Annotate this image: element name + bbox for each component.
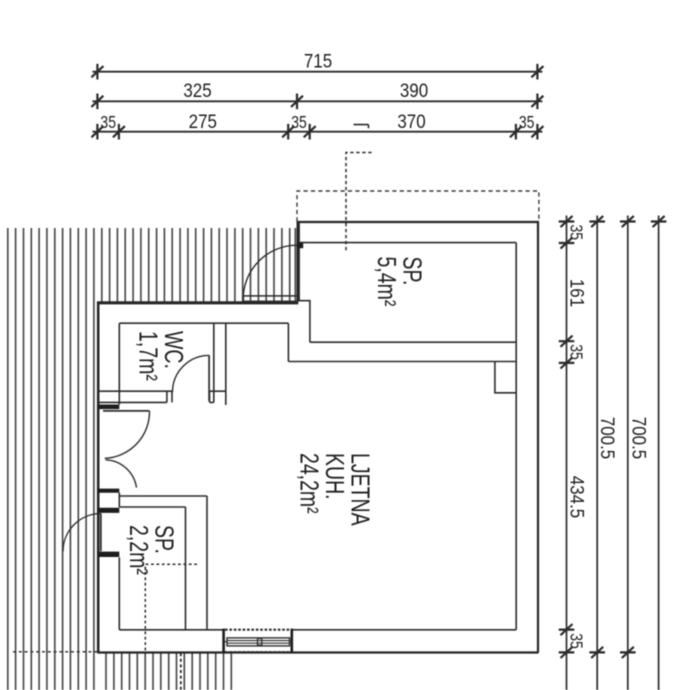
svg-text:1,7m²: 1,7m² [134, 331, 163, 381]
svg-text:700.5: 700.5 [628, 417, 650, 459]
svg-text:35: 35 [566, 225, 585, 241]
svg-text:390: 390 [400, 79, 428, 101]
dashed line in bottom hatch [180, 653, 182, 690]
svg-text:35: 35 [100, 113, 116, 132]
dashed lines in SP2 room [145, 564, 197, 652]
svg-text:434.5: 434.5 [566, 476, 588, 518]
top-left wall inner [119, 322, 288, 324]
WC door leaf + arc [208, 355, 210, 401]
SP section west wall (thick) [297, 222, 300, 302]
terrain hatch bottom strip [106, 653, 231, 690]
svg-text:370: 370 [397, 110, 425, 132]
left wall block edge between caps [118, 493, 120, 508]
SP2 exterior door leaf + arc (swings outside) [100, 514, 102, 552]
window in bottom wall [224, 629, 292, 654]
bottom wall inner [119, 629, 516, 631]
svg-text:325: 325 [183, 79, 211, 101]
svg-text:5,4m²: 5,4m² [372, 257, 401, 307]
WC right wall [214, 323, 226, 405]
SP room west step [298, 301, 310, 343]
svg-text:2,2m²: 2,2m² [124, 525, 153, 575]
top wall outer [297, 221, 538, 223]
entry double door upper leaf + arc [103, 410, 150, 412]
svg-text:35: 35 [566, 633, 585, 649]
right dimension lines [559, 216, 667, 690]
niche/column main room NE [495, 362, 516, 393]
dash-dot leader line into SP room [346, 153, 372, 251]
right wall inner [515, 243, 517, 630]
left wall outer [97, 302, 100, 653]
left wall inner [118, 323, 120, 630]
svg-text:161: 161 [566, 279, 588, 307]
entry double door jamb caps on left wall [98, 407, 120, 555]
top wall inner [300, 242, 516, 244]
svg-text:715: 715 [304, 49, 332, 71]
terrace door arc [243, 245, 297, 299]
top-left section wall outer (thick) [97, 301, 298, 304]
terrain hatch left+top strips [8, 228, 296, 690]
building outer walls [97, 221, 538, 653]
entry double door lower arc [106, 460, 137, 488]
svg-text:700.5: 700.5 [597, 417, 619, 459]
svg-text:35: 35 [291, 113, 307, 132]
svg-text:275: 275 [189, 110, 217, 132]
svg-text:35: 35 [519, 113, 535, 132]
terrace door leaf (over hatch) [243, 296, 297, 301]
SP2 room right wall [186, 496, 208, 630]
hinge blob SP NW corner [297, 243, 303, 249]
SP room bottom wall (two lines) [310, 341, 516, 343]
right wall outer [537, 221, 539, 653]
dashed roof overhang outline [297, 191, 539, 222]
WC bottom wall [98, 390, 226, 392]
middle wall left edge [287, 323, 289, 361]
SP2 room top wall [119, 496, 207, 507]
bottom wall outer [97, 651, 538, 653]
dimension line 715 [91, 64, 543, 140]
svg-text:24,2m²: 24,2m² [295, 453, 324, 514]
dashed line left of building bottom corner [13, 651, 97, 653]
svg-text:35: 35 [566, 344, 585, 360]
small marker symbol near 370 [354, 125, 369, 129]
